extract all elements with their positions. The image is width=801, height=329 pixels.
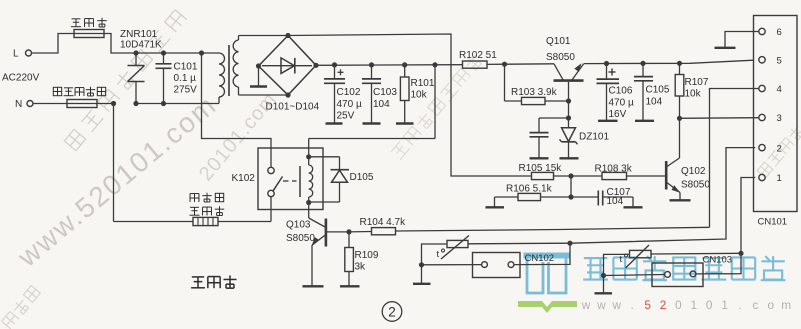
node L-C101 [161,50,166,55]
figure number 2 circled [382,302,402,322]
wire R106 right [541,196,572,198]
svg-text:104: 104 [607,196,624,207]
relay coil core bar [299,166,301,197]
svg-text:Q103: Q103 [286,220,311,231]
node N-C101 [161,101,166,106]
wire output rail [584,60,754,63]
wire nodeA to R103 [505,100,522,102]
ground CN103 left [595,292,613,294]
node RT1 right [567,241,572,246]
node R101 [402,62,407,67]
svg-text:2: 2 [777,143,782,154]
svg-text:0.1 µ: 0.1 µ [174,73,197,84]
wire CN102 pin right [514,243,570,264]
label board name hanzi 电源板 [192,276,204,278]
wire R103 to base node [545,100,569,102]
svg-text:t: t [437,249,440,260]
transistor Q101 [554,64,563,80]
varistor ZNR101 [135,53,137,66]
wire node down [570,176,572,197]
node bridge top [285,33,290,38]
svg-text:ZNR101: ZNR101 [120,29,158,40]
watermark diagonal hanzi top-left [64,9,187,151]
relay K102 box [258,148,323,210]
capacitor C101 [163,53,165,64]
wire R106 left [495,196,519,198]
node C103 [369,62,374,67]
svg-text:5: 5 [777,56,782,67]
resistor R107 [679,63,681,74]
capacitor at Q101 base [538,118,540,132]
wire base node down [568,101,570,118]
bridge rectifier D101-D104 diamond [259,36,317,96]
svg-text:104: 104 [646,97,663,108]
node C106 [604,61,609,66]
resistor R101 [404,65,406,77]
svg-text:2: 2 [660,298,667,312]
resistor R104 [349,231,372,233]
wire RT2 right [651,252,741,255]
wire pin1 up [741,178,755,254]
wire N drop [113,104,115,222]
node A [502,62,507,67]
wire relay top rail [309,138,435,140]
relay link dashes [283,180,289,182]
svg-text:w: w [612,298,622,312]
watermark diagonal www.520101.com large [11,89,222,273]
diode inside bridge [262,65,312,67]
svg-text:R109: R109 [355,250,379,261]
svg-text:o: o [768,298,775,312]
node N-ZNR [133,101,138,106]
svg-text:Q101: Q101 [546,36,571,47]
svg-text:5: 5 [644,298,651,312]
resistor R109 [348,232,350,248]
svg-text:10D471K: 10D471K [120,40,162,51]
svg-text:C102: C102 [337,87,361,98]
svg-text:R107: R107 [685,77,709,88]
label fuse hanzi 保险丝 [72,18,81,20]
svg-text:C105: C105 [646,85,670,96]
wire R102 to node A [487,63,505,65]
wire CN102 pin left [422,264,482,266]
svg-text:CN102: CN102 [525,253,555,264]
node Q103 base [346,229,351,234]
node relay feed [432,62,437,67]
svg-text:1: 1 [721,298,728,312]
wire CN103 pin right [696,253,741,274]
wire N to fuse2 [33,103,67,105]
svg-text:m: m [781,298,791,312]
watermark diagonal hanzi bottom-left corner [1,285,41,329]
svg-text:N: N [15,99,22,110]
ground C107 [624,206,643,208]
svg-text:C103: C103 [373,87,397,98]
wire CN103 left down [603,276,605,294]
node bridge left [256,63,261,68]
watermark hanzi teal 家电维修资料网 [584,257,607,259]
resistor R103 [522,97,546,104]
terminal N [27,101,33,107]
node CN103 left [601,273,606,278]
svg-text:1: 1 [691,298,698,312]
resistor R102 [463,61,488,68]
node coil top [306,154,311,159]
node N heater branch [111,101,116,106]
label temp fuse hanzi 温度保险丝 [53,87,61,95]
ground C103 [363,122,381,124]
svg-text:104: 104 [373,99,390,110]
relay switch blade [273,177,282,191]
svg-text:t: t [620,254,623,265]
wire RT1 left [422,244,448,265]
svg-text:3k: 3k [355,262,367,273]
svg-text:w: w [596,298,606,312]
node coil bottom [306,200,311,205]
watermark diagonal hanzi mid-right [390,53,484,161]
capacitor C102 electrolytic [334,65,336,79]
svg-text:R104 4.7k: R104 4.7k [360,217,407,228]
diode D105 [309,156,340,158]
svg-text:S8050: S8050 [546,52,575,63]
svg-text:AC220V: AC220V [2,73,40,84]
ground R109 [340,285,360,287]
svg-text:CN101: CN101 [758,217,788,228]
wire secondary bottom to bridge [239,94,289,96]
connector CN101 box [754,16,798,212]
wire N rail [136,103,219,105]
ground R106 [486,206,505,208]
resistor R108 [571,175,602,177]
svg-text:.: . [631,298,634,312]
CN101 pin 6 [759,28,765,34]
svg-text:470 µ: 470 µ [337,99,362,110]
svg-text:25V: 25V [337,111,355,122]
wire pin3 [680,117,759,120]
wire AC sense top [288,34,532,176]
CN101 pin 5 [759,57,765,63]
connector CN103 [652,263,703,287]
wire pin4 [710,89,759,228]
svg-text:Q102: Q102 [681,166,706,177]
transformer T1 secondary winding [233,40,238,87]
relay coil [308,139,310,166]
resistor R105 [532,172,554,179]
wire pin6 to ground [725,32,759,48]
svg-text:c: c [752,298,758,312]
node R105/R108 [568,173,573,178]
label heater hanzi 电热丝 [190,206,199,208]
wire R105 to node [554,175,572,177]
svg-text:C106: C106 [609,86,633,97]
fuse F1 [74,30,104,38]
thermistor RT1 [447,240,468,247]
wire R108 to Q102 base [627,175,667,177]
watermark logo green ribbon [518,301,577,313]
svg-text:0: 0 [675,298,682,312]
resistor R106 [518,193,541,200]
node bridge bottom [285,92,290,97]
node C102 [332,62,337,67]
svg-text:D105: D105 [350,172,374,183]
wire heater right [218,221,271,223]
node zener top [566,115,571,120]
ground CN102 left [413,283,431,285]
watermark logo teal book [524,253,571,259]
svg-text:275V: 275V [174,85,198,96]
svg-text:4: 4 [777,84,782,95]
svg-text:6: 6 [777,27,782,38]
svg-text:3: 3 [777,113,782,124]
ground base cap [530,157,549,159]
CN101 pin 1 [759,174,765,180]
ground pin6 [715,47,736,49]
svg-text:D101~D104: D101~D104 [266,102,320,113]
node R106/C107 [568,194,573,199]
node CN102 left [419,262,424,267]
wire node A down [504,64,506,101]
wire raw DC rail [316,64,463,67]
svg-text:S8050: S8050 [681,180,710,191]
node L-ZNR [133,50,138,55]
wire coil bottom to Q103 [308,203,310,219]
thermistor RT2 [630,250,652,257]
node C105 [640,61,645,66]
watermark diagonal 20101.com small [195,88,281,185]
svg-text:S8050: S8050 [286,233,315,244]
transistor Q103 [325,219,328,247]
transformer T1 primary winding [219,53,225,97]
label heater hanzi 发热盘 [190,193,199,195]
ground Q103 emitter [303,285,324,287]
svg-text:w: w [581,298,591,312]
ground Q102 emitter [670,199,691,201]
svg-text:DZ101: DZ101 [579,132,609,143]
wire primary top [202,52,220,54]
heater element [193,217,218,225]
svg-text:10k: 10k [411,90,428,101]
wire L to fuse [32,34,75,54]
wire L drop to relay [202,53,272,148]
terminal L [26,50,32,56]
svg-text:R101: R101 [411,78,435,89]
svg-text:10k: 10k [685,89,702,100]
capacitor C106 electrolytic [606,64,608,79]
capacitor C105 [642,63,644,76]
wire heater left [114,221,194,223]
ground C105 [635,120,654,122]
transistor Q102 [667,158,680,167]
wire fuse2 to rail [97,103,114,105]
node R107 [677,61,682,66]
CN101 pin 3 [759,114,765,120]
svg-text:R103 3.9k: R103 3.9k [511,87,558,98]
wire CN102 left down [421,265,423,284]
relay contact lower [268,190,274,196]
capacitor C107 [571,196,598,198]
wire RT2 left [604,254,630,275]
ground R101 [396,122,414,124]
watermark diagonal hanzi right edge [757,124,801,178]
CN101 pin 4 [759,85,765,91]
ground C102 [326,122,343,124]
svg-text:C101: C101 [174,62,198,73]
wire CN103 pin left [604,275,665,276]
wire fuse to rail [104,34,136,54]
svg-text:CN103: CN103 [703,255,733,266]
node L primary/relay [199,50,204,55]
wire R104 to pin4 [396,227,710,231]
ground DZ101 [560,157,579,159]
svg-text:.: . [738,298,741,312]
wire secondary top to bridge [239,35,289,37]
svg-text:2: 2 [388,305,396,320]
wire relay feed down [434,65,436,139]
wire node A to Q101 collector [505,63,555,65]
svg-text:1: 1 [777,173,782,184]
transformer T1 core [228,45,230,96]
svg-text:K102: K102 [232,173,256,184]
wire RT1 right [468,242,570,245]
capacitor C103 [371,65,373,79]
ground C106 [598,120,618,122]
svg-text:L: L [13,49,19,60]
fuse F2 temperature [67,100,97,108]
relay contact upper [270,148,272,167]
svg-text:0: 0 [706,298,713,312]
wire RT1 node to pin2 [570,148,755,244]
node pin3 junction [677,116,682,121]
CN101 pin 2 [759,144,765,150]
connector CN102 [473,253,521,278]
node pin1 junction [738,251,743,256]
wire to filter cap [539,117,569,119]
node Q101 base [566,98,571,103]
wire R107 to Q102 collector [679,118,681,158]
svg-text:470 µ: 470 µ [609,98,634,109]
zener diode DZ101 [568,118,570,128]
ground bridge left vertex [258,66,260,87]
svg-text:R102 51: R102 51 [459,50,497,61]
svg-text:16V: 16V [609,109,627,120]
wire L rail [136,52,202,54]
node bridge right [313,63,318,68]
